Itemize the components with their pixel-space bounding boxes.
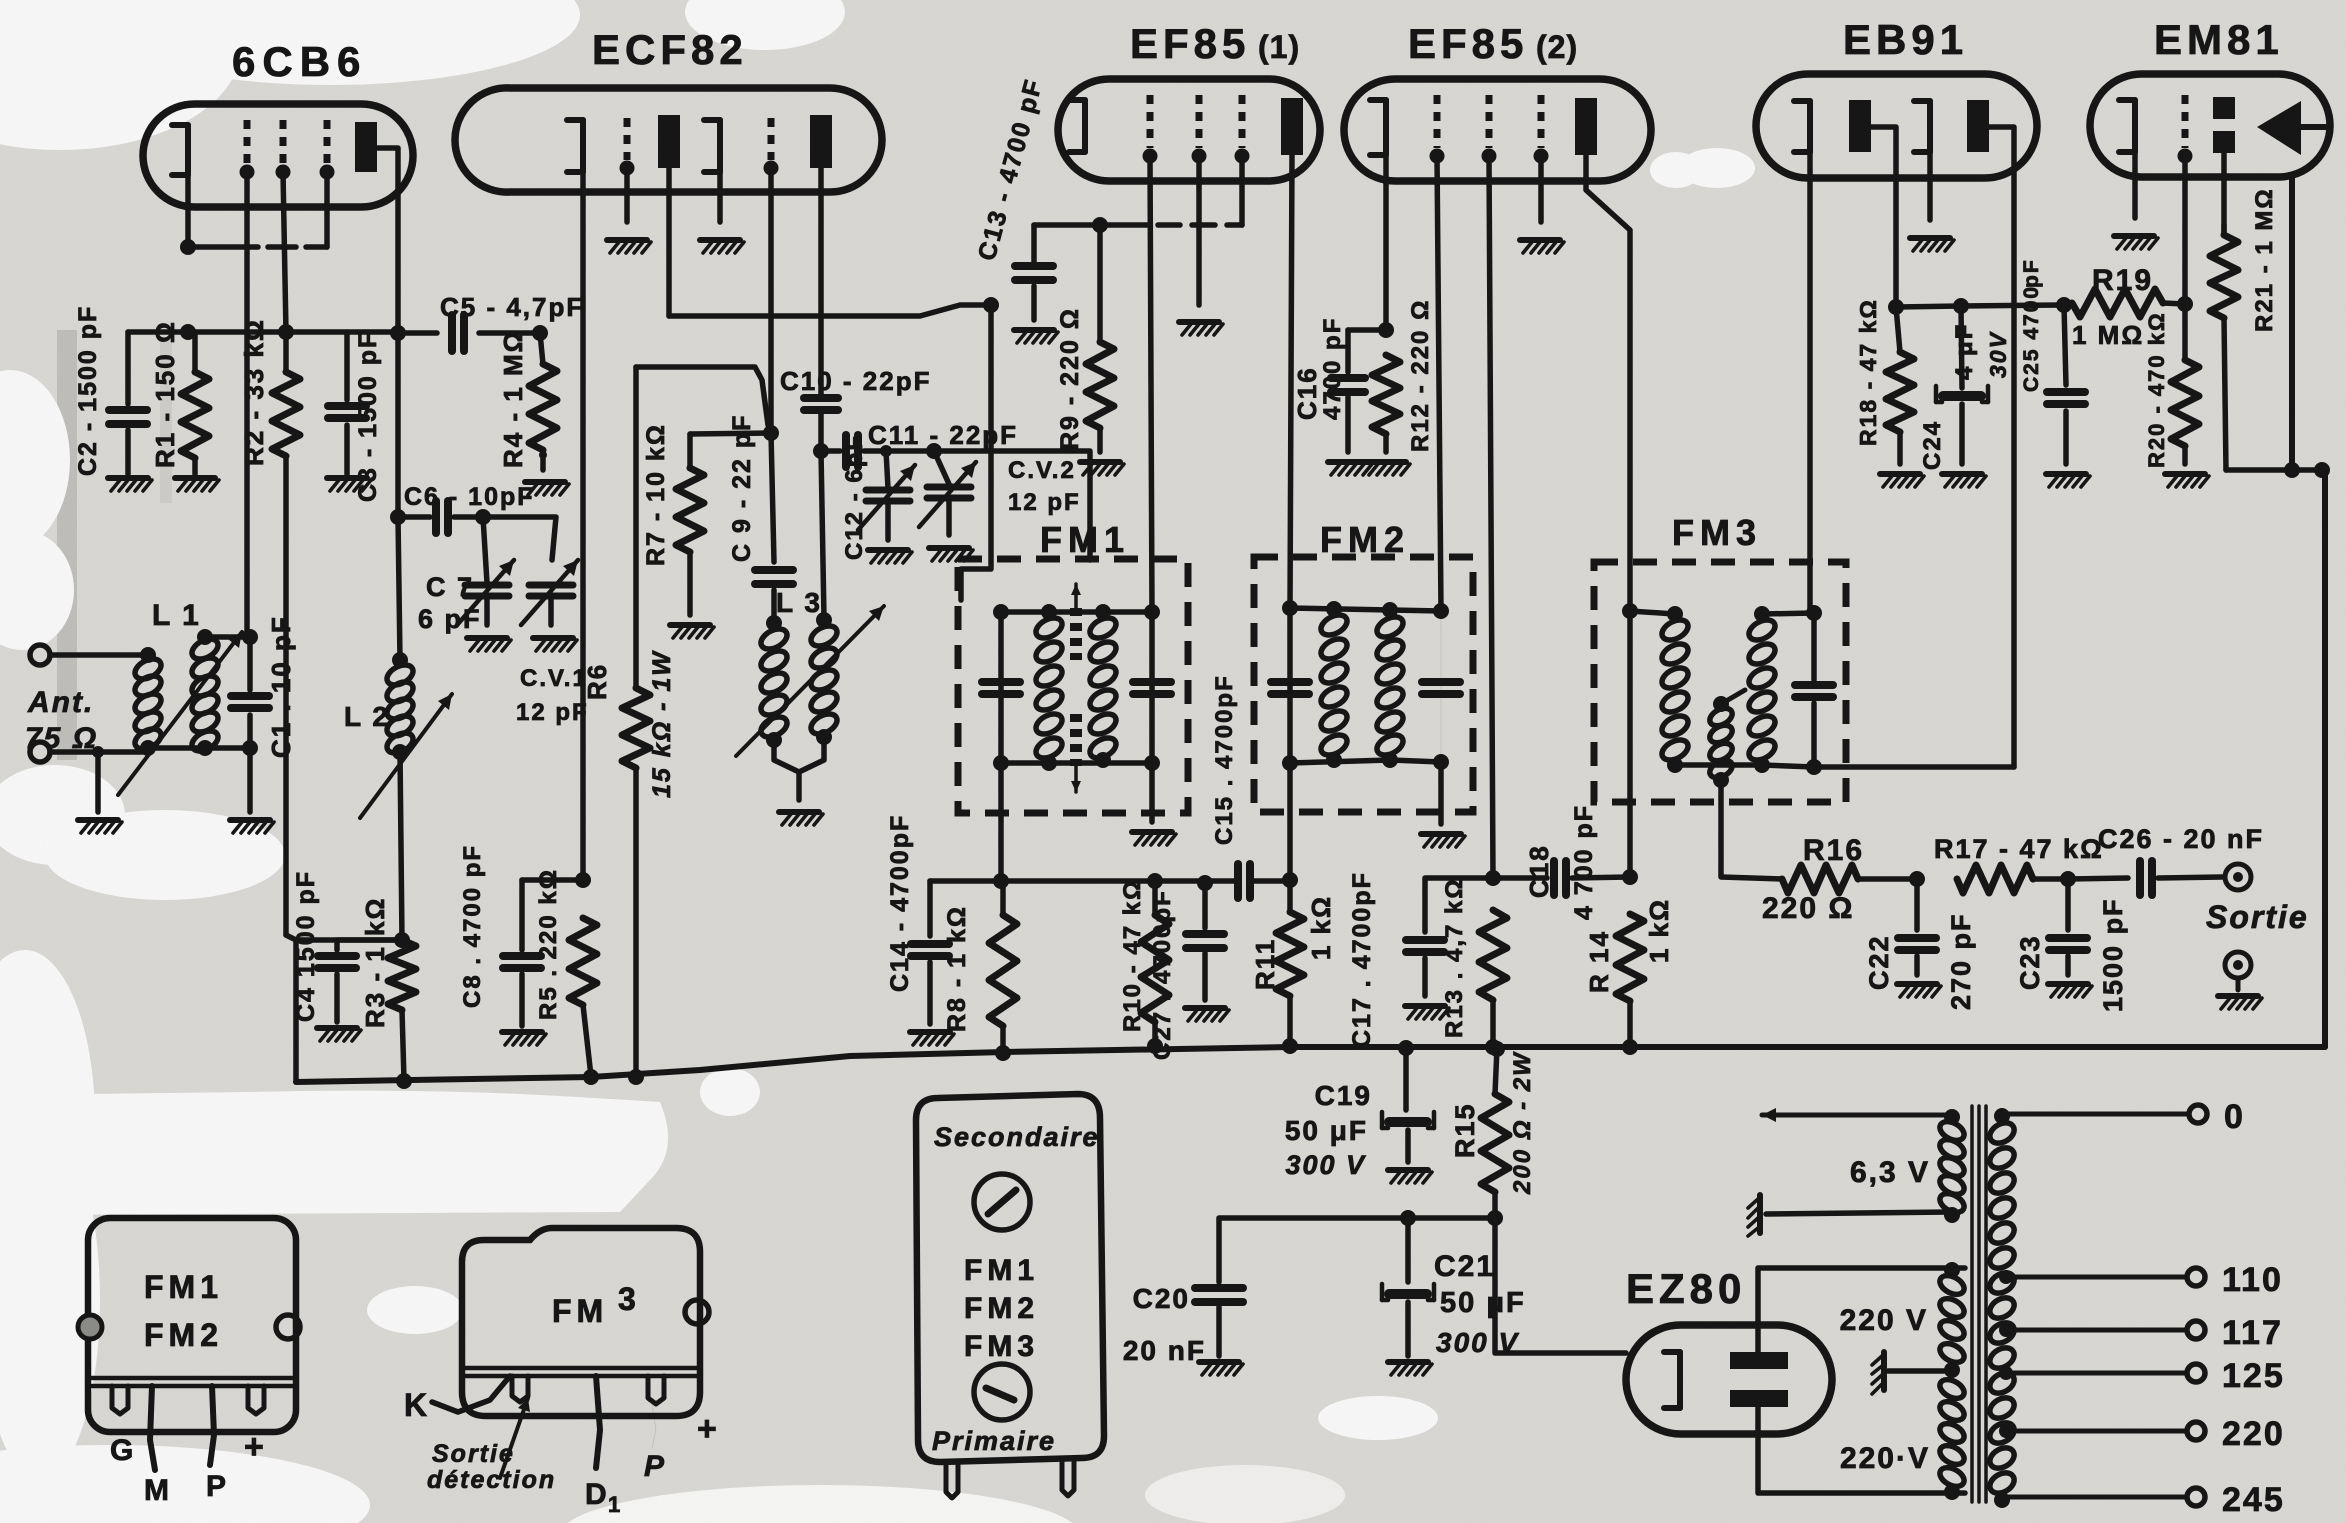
- capacitor C5: [398, 315, 548, 351]
- svg-text:1 kΩ: 1 kΩ: [1644, 898, 1674, 963]
- wire tap 220: [1999, 1422, 2205, 1440]
- svg-text:R 14: R 14: [1584, 930, 1614, 993]
- capacitor C14: [911, 881, 949, 1024]
- svg-text:Ant.: Ant.: [27, 686, 94, 719]
- resistor R5: [569, 918, 599, 1085]
- svg-text:EM81: EM81: [2154, 16, 2284, 63]
- C17 label: [1348, 871, 1376, 1048]
- EB91 ground k2: [1910, 238, 1954, 251]
- capacitor C1: [231, 637, 269, 812]
- FM1 FM2 can label: [144, 1269, 223, 1353]
- C13 label: [973, 75, 1048, 263]
- resistor R9: [1086, 225, 1114, 452]
- svg-text:220: 220: [2222, 1415, 2285, 1453]
- resistor R15: [1481, 1041, 1509, 1226]
- svg-text:12 pF: 12 pF: [516, 699, 589, 726]
- label 117: [2222, 1314, 2283, 1352]
- svg-text:1500 pF: 1500 pF: [2098, 897, 2128, 1012]
- svg-text:270 pF: 270 pF: [1946, 912, 1976, 1010]
- label 245: [2222, 1481, 2285, 1519]
- EM81 fluorescent screen: [2257, 101, 2326, 155]
- Primaire label: [932, 1426, 1056, 1456]
- svg-text:C2 - 1500 pF: C2 - 1500 pF: [74, 305, 102, 476]
- tube EB91 label: [1843, 16, 1968, 63]
- R13 label: [1441, 877, 1468, 1038]
- tube ECF82 label: [592, 26, 748, 73]
- svg-text:R13 . 4,7 kΩ: R13 . 4,7 kΩ: [1441, 877, 1468, 1038]
- L3 label: [776, 587, 822, 618]
- wire 6.3V bottom: [1766, 1212, 1952, 1214]
- FM2 left wire: [1282, 600, 1298, 888]
- R20 label: [2144, 311, 2169, 468]
- EM81 target electrodes: [2213, 97, 2235, 235]
- svg-text:Secondaire: Secondaire: [934, 1122, 1100, 1152]
- label 220: [2222, 1415, 2285, 1453]
- EF85(2) plate: [1575, 98, 1630, 611]
- capacitor C24: [1936, 306, 1988, 464]
- EZ80 plate 1: [1730, 1352, 1788, 1369]
- EM81 ground k: [2114, 236, 2158, 249]
- 6CB6 grid 2 pin: [276, 120, 291, 332]
- svg-text:C14 - 4700pF: C14 - 4700pF: [886, 814, 914, 992]
- terminal Sortie ground: [2225, 952, 2251, 978]
- svg-text:FM: FM: [552, 1293, 608, 1329]
- C15 label: [1211, 674, 1238, 845]
- wire L1 bottom link: [148, 740, 258, 756]
- svg-text:C25 4700: C25 4700: [2020, 285, 2043, 392]
- ECF82 grid 1 pin: [620, 118, 635, 222]
- ground C4: [317, 1028, 361, 1041]
- R15 value label: [1509, 1051, 1536, 1195]
- ground FM1: [1132, 832, 1176, 845]
- C24 value label: [1951, 323, 1978, 380]
- capacitor C11: [821, 435, 942, 467]
- ECF82 plate 1: [658, 115, 680, 316]
- wire R15 to EZ80: [1495, 1218, 1626, 1353]
- capacitor C16: [1331, 330, 1365, 452]
- terminal antenna bottom: [30, 742, 50, 762]
- 6CB6 plate: [355, 122, 398, 333]
- ground C23: [2048, 984, 2092, 997]
- resistor R18: [1886, 307, 1914, 464]
- FM3 primary coil: [1659, 616, 1692, 773]
- C16 label: [1292, 317, 1346, 420]
- svg-text:pF: pF: [2020, 258, 2043, 288]
- svg-text:Sortie: Sortie: [2206, 899, 2309, 935]
- inductor L2: [384, 517, 417, 940]
- C23 value label: [2098, 897, 2128, 1012]
- ground C3: [327, 478, 371, 491]
- C4 label: [292, 870, 320, 1022]
- ground C22: [1897, 984, 1941, 997]
- svg-text:M: M: [144, 1474, 171, 1507]
- block FM2 label: [964, 1292, 1039, 1325]
- EF85(1) grid1 pin: [1143, 95, 1158, 612]
- FM3 to EB91 wire: [1810, 613, 2014, 767]
- FM1 dashed box: [958, 559, 1188, 813]
- ground R20: [2165, 474, 2209, 487]
- capacitor C15: [1238, 864, 1290, 898]
- R11 label: [1250, 895, 1336, 990]
- resistor R21: [2185, 225, 2238, 470]
- svg-text:C21: C21: [1434, 1250, 1495, 1283]
- wire CV2 to FM1: [934, 451, 1090, 560]
- FM1 FM2 can block: [88, 1218, 296, 1432]
- label 110: [2222, 1261, 2283, 1299]
- svg-text:R10 - 47 kΩ: R10 - 47 kΩ: [1119, 879, 1146, 1032]
- svg-text:FM3: FM3: [964, 1330, 1039, 1363]
- R5 label: [535, 868, 562, 1020]
- wire tap 0: [2002, 1105, 2207, 1123]
- EF85(2) grid2 pin: [1482, 95, 1497, 878]
- label plus fm3: [697, 1410, 719, 1448]
- ground 6.3V: [1748, 1195, 1760, 1236]
- svg-text:C20: C20: [1133, 1283, 1190, 1314]
- svg-text:FM3: FM3: [1672, 512, 1762, 553]
- svg-text:R3 - 1 kΩ: R3 - 1 kΩ: [360, 897, 390, 1028]
- svg-text:L 3: L 3: [776, 587, 822, 618]
- FM1 top rail: [1001, 604, 1111, 620]
- ground C19: [1388, 1170, 1432, 1183]
- ground CV1: [533, 638, 577, 651]
- Sortie detection label: [427, 1440, 556, 1494]
- svg-text:R7 - 10 kΩ: R7 - 10 kΩ: [642, 423, 670, 566]
- capacitor C2: [109, 332, 147, 474]
- C25 label: [2020, 258, 2043, 392]
- svg-text:R5 . 220 kΩ: R5 . 220 kΩ: [535, 868, 562, 1020]
- Secondaire pin 2: [1062, 1460, 1074, 1496]
- EF85(2) grid3 pin: [1534, 95, 1549, 222]
- svg-text:C15 . 4700pF: C15 . 4700pF: [1211, 674, 1238, 845]
- capacitor C17: [1406, 878, 1493, 996]
- svg-text:220 V: 220 V: [1840, 1304, 1928, 1337]
- svg-text:6,3 V: 6,3 V: [1850, 1156, 1930, 1189]
- R19 value label: [2072, 320, 2144, 350]
- wire to EF85(1) grid line: [961, 305, 991, 600]
- R17 label: [1934, 834, 2104, 864]
- FM1 primary coil: [1033, 614, 1066, 771]
- svg-text:C16: C16: [1292, 366, 1322, 420]
- ground CV2: [929, 548, 973, 561]
- C23 label: [2015, 934, 2045, 990]
- svg-text:C26 - 20 nF: C26 - 20 nF: [2098, 824, 2264, 854]
- node EB91 out: [1888, 299, 1904, 315]
- ground C1: [230, 820, 274, 833]
- svg-text:C1 . 10 pF: C1 . 10 pF: [266, 615, 296, 758]
- svg-text:EF85: EF85: [1130, 20, 1250, 67]
- FM1 secondary coil: [1087, 614, 1120, 768]
- FM3 primary feed: [1627, 611, 1633, 877]
- ground C14: [910, 1032, 954, 1045]
- svg-text:R21 - 1 MΩ: R21 - 1 MΩ: [2251, 187, 2278, 332]
- C12 label: [841, 434, 868, 560]
- node R3 C4: [394, 932, 410, 948]
- ECF82 grid 2 pin: [764, 118, 779, 433]
- wire plate to C6: [390, 333, 406, 525]
- EB91 cathode 2: [1914, 101, 1930, 220]
- svg-text:FM1: FM1: [1040, 519, 1130, 560]
- resistor R13: [1479, 910, 1507, 1055]
- EF85(2) cathode: [1370, 100, 1386, 330]
- resistor R2: [272, 332, 402, 940]
- ground C27: [1185, 1008, 1229, 1021]
- capacitor C23: [2049, 879, 2087, 975]
- capacitor C27: [1186, 883, 1224, 1000]
- EF85(1) cathode: [1069, 100, 1085, 152]
- svg-text:50 μF: 50 μF: [1285, 1115, 1368, 1146]
- resistor R14: [1616, 914, 1644, 1055]
- ground C8: [502, 1032, 546, 1045]
- svg-text:1 kΩ: 1 kΩ: [1306, 895, 1336, 960]
- ground R18: [1880, 474, 1924, 487]
- capacitor C20: [1195, 1288, 1243, 1356]
- FM1 FM2 can pin hook 1: [112, 1386, 128, 1414]
- transformer primary winding: [1937, 1262, 1967, 1500]
- FM1 bottom rail: [1001, 755, 1160, 771]
- capacitor C13: [1015, 225, 1053, 320]
- resistor R19: [2064, 289, 2193, 317]
- svg-text:C23: C23: [2015, 934, 2045, 990]
- ground C16: [1328, 462, 1372, 475]
- tube EZ80 label: [1626, 1265, 1746, 1312]
- label G: [110, 1434, 135, 1467]
- EF85(1) ground g2: [1179, 322, 1223, 335]
- C6 label: [404, 483, 535, 511]
- C21 label: [1434, 1250, 1495, 1283]
- tube EZ80 envelope: [1626, 1325, 1832, 1434]
- ECF82 cathode 1: [567, 120, 583, 880]
- tube ECF82 envelope: [455, 88, 882, 192]
- ground C2: [108, 478, 152, 491]
- C27 label: [1149, 889, 1176, 1060]
- svg-text:C8 . 4700 pF: C8 . 4700 pF: [459, 844, 486, 1008]
- FM1 FM2 can left terminal: [78, 1315, 102, 1339]
- ground C12: [868, 550, 912, 563]
- capacitor C8: [503, 872, 591, 1026]
- transformer core: [1972, 1106, 1986, 1502]
- resistor R6: [622, 367, 650, 1085]
- resistor R1: [181, 332, 209, 474]
- ground R4: [525, 482, 569, 495]
- svg-text:P: P: [644, 1450, 666, 1483]
- svg-text:EZ80: EZ80: [1626, 1265, 1746, 1312]
- tube EF85(2) label: [1408, 20, 1578, 67]
- ECF82 ground g1: [607, 240, 651, 253]
- resistor R4: [529, 333, 557, 470]
- wire L3 feed: [821, 451, 824, 618]
- EF85(1) grid2 pin: [1192, 95, 1207, 305]
- svg-text:C27 . 4700pF: C27 . 4700pF: [1149, 889, 1176, 1060]
- C18 label: [1524, 804, 1598, 920]
- svg-text:4 μF: 4 μF: [1951, 323, 1978, 380]
- L2 label: [344, 701, 390, 732]
- C21 voltage label: [1436, 1327, 1519, 1358]
- R6 label: [582, 663, 612, 700]
- capacitor C26: [2068, 861, 2222, 895]
- ground C7: [467, 638, 511, 651]
- C2 label: [74, 305, 102, 476]
- svg-text:C.V.2: C.V.2: [1008, 457, 1076, 484]
- svg-text:D: D: [585, 1478, 609, 1511]
- ground L3: [779, 812, 823, 825]
- label P: [206, 1470, 228, 1503]
- svg-text:6 pF: 6 pF: [418, 604, 482, 634]
- resistor R10: [1141, 881, 1169, 1054]
- Sortie label: [2206, 899, 2309, 935]
- svg-text:R19: R19: [2092, 264, 2153, 297]
- capacitor C22: [1898, 879, 1936, 975]
- FM2 left capacitor: [1271, 682, 1309, 694]
- svg-text:P: P: [206, 1470, 228, 1503]
- FM2 right wire: [1440, 611, 1442, 824]
- ground ant: [78, 752, 122, 833]
- wire bus left riser: [293, 940, 299, 1082]
- FM3 can label: [552, 1281, 638, 1329]
- inductor L3 right: [808, 612, 841, 745]
- svg-text:EF85: EF85: [1408, 20, 1528, 67]
- EF85(2) ground g3: [1520, 240, 1564, 253]
- C7 label: [418, 572, 482, 634]
- ground C20: [1199, 1362, 1243, 1375]
- C.V.2 label: [1008, 457, 1081, 516]
- C14 label: [886, 814, 914, 992]
- C11 label: [868, 420, 1018, 450]
- C19 voltage label: [1285, 1150, 1366, 1180]
- svg-text:+: +: [697, 1410, 719, 1448]
- svg-text:6CB6: 6CB6: [232, 38, 367, 85]
- EF85(1) grid3 pin: [1235, 95, 1250, 225]
- FM3 can pin D1: [596, 1376, 600, 1468]
- L3 common: [774, 737, 824, 800]
- FM1 FM2 can pin hook 2: [248, 1386, 264, 1414]
- svg-text:EB91: EB91: [1843, 16, 1968, 63]
- FM3 top rail: [1622, 603, 1683, 622]
- EZ80 plate top wire: [1758, 1268, 1965, 1352]
- label Ant 75ohm: [25, 686, 98, 755]
- svg-text:3: 3: [618, 1281, 638, 1317]
- svg-text:G: G: [110, 1434, 135, 1467]
- ECF82 plate 2: [810, 115, 832, 395]
- FM3 bottom rail: [1675, 765, 1814, 767]
- capacitor C25: [2047, 305, 2085, 464]
- 6CB6 grid 3 pin: [320, 120, 335, 247]
- svg-text:20 nF: 20 nF: [1123, 1335, 1206, 1366]
- EB91 plate 2: [1967, 100, 2014, 767]
- label K: [404, 1387, 429, 1423]
- FM3 can block: [462, 1228, 700, 1416]
- capacitor C3: [328, 332, 366, 474]
- svg-text:1 MΩ: 1 MΩ: [2072, 320, 2144, 350]
- variable capacitor C12: [858, 451, 915, 540]
- svg-text:C.V.1: C.V.1: [520, 665, 588, 692]
- FM3 can pin P: [652, 1404, 656, 1448]
- FM1 FM2 can pin M: [150, 1386, 155, 1470]
- R9 label: [1056, 307, 1084, 450]
- svg-text:ECF82: ECF82: [592, 26, 748, 73]
- L1 arrow: [118, 632, 242, 795]
- EB91 cathode 1: [1794, 101, 1810, 613]
- svg-text:200 Ω - 2W: 200 Ω - 2W: [1509, 1051, 1536, 1195]
- ground R9: [1080, 462, 1124, 475]
- node grid2: [763, 425, 779, 441]
- C8 label: [459, 844, 486, 1008]
- resistor R11: [1276, 880, 1304, 1054]
- EM81 cathode: [2119, 100, 2135, 218]
- svg-text:R4 - 1 MΩ: R4 - 1 MΩ: [498, 329, 528, 468]
- FM3 sec top wire: [1762, 605, 1822, 621]
- inductor L3 left: [758, 615, 791, 748]
- resistor R8: [989, 881, 1017, 1061]
- R14 label: [1584, 898, 1674, 993]
- C21 value label: [1440, 1287, 1526, 1319]
- R19 label: [2092, 264, 2153, 297]
- capacitor C9: [755, 433, 793, 620]
- Secondaire label: [934, 1122, 1100, 1152]
- FM1 label: [1040, 519, 1130, 560]
- wire detector node: [1896, 297, 2072, 314]
- R16 label: [1803, 834, 1864, 867]
- primary tap ground: [1872, 1352, 1950, 1394]
- wire y877 r13-c18: [1493, 875, 1547, 881]
- node R13: [1485, 870, 1501, 886]
- variable capacitor C.V.2: [919, 451, 976, 535]
- tube EF85(2) envelope: [1344, 79, 1651, 181]
- wire R21 bottom link: [2226, 462, 2330, 478]
- ground C24: [1942, 474, 1986, 487]
- svg-text:FM1: FM1: [964, 1254, 1039, 1287]
- variable capacitor C.V.1: [521, 560, 578, 625]
- label 0: [2224, 1098, 2245, 1136]
- svg-text:+: +: [244, 1428, 266, 1466]
- FM1 right capacitor: [1133, 612, 1171, 763]
- C1 label: [266, 615, 296, 758]
- svg-text:(1): (1): [1258, 29, 1300, 65]
- inductor L1 secondary: [189, 629, 222, 756]
- svg-text:C 9 - 22 pF: C 9 - 22 pF: [728, 414, 756, 562]
- R10 label: [1119, 879, 1146, 1032]
- wire ant top: [50, 647, 156, 663]
- svg-text:R18 - 47 kΩ: R18 - 47 kΩ: [1855, 298, 1881, 446]
- L2 arrow: [360, 694, 452, 818]
- capacitor C4: [318, 940, 402, 1022]
- FM1 FM2 can pin P: [210, 1386, 214, 1465]
- FM1 left wire: [993, 604, 1009, 880]
- R12 label: [1407, 299, 1434, 452]
- L1 label: [152, 599, 201, 632]
- wire ant bottom: [50, 746, 148, 758]
- ground Sortie: [2218, 978, 2262, 1009]
- C20 label: [1133, 1283, 1190, 1314]
- svg-text:R16: R16: [1803, 834, 1864, 867]
- FM3 can pin K wire: [432, 1376, 510, 1412]
- svg-text:(2): (2): [1536, 29, 1578, 65]
- FM1 right wire: [1149, 612, 1155, 822]
- EZ80 cathode: [1664, 1352, 1680, 1408]
- FM3 can base line: [466, 1368, 698, 1376]
- svg-text:FM1: FM1: [144, 1269, 223, 1305]
- C.V.1 label: [516, 665, 589, 726]
- label D1: [585, 1478, 622, 1517]
- capacitor C6: [398, 501, 491, 533]
- C20 value label: [1123, 1335, 1206, 1366]
- svg-text:12 pF: 12 pF: [1008, 489, 1081, 516]
- svg-text:C22: C22: [1864, 934, 1894, 990]
- wire C20 C21 node: [1219, 1210, 1495, 1282]
- svg-text:C12 - 6pF: C12 - 6pF: [841, 434, 868, 560]
- resistor R16: [1782, 865, 1925, 893]
- ground C25: [2046, 474, 2090, 487]
- svg-text:C18: C18: [1524, 844, 1554, 898]
